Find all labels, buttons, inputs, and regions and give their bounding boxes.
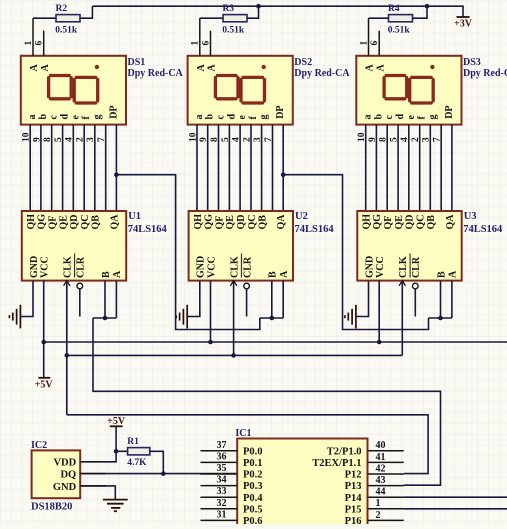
DS1 decimal point: [95, 65, 99, 69]
wire U1 CLR stub: [79, 288, 81, 316]
IC2 pin DQ stub: [80, 473, 105, 475]
svg-text:R4: R4: [388, 4, 400, 14]
DS1 7-seg digit right loop: [74, 77, 98, 103]
svg-text:A: A: [207, 64, 218, 72]
display DS1 body: [21, 56, 126, 125]
wire DS3 column 5: [408, 125, 410, 211]
svg-text:CLR: CLR: [242, 256, 253, 278]
svg-text:Dpy Red-CA: Dpy Red-CA: [128, 68, 184, 79]
junction U1 CLK on CLK bus: [65, 353, 70, 358]
svg-text:IC2: IC2: [31, 440, 47, 451]
svg-text:37: 37: [217, 440, 227, 451]
svg-text:QC: QC: [416, 215, 427, 230]
svg-text:B: B: [101, 271, 112, 278]
wire +3V top rail: [92, 5, 463, 7]
wire DS2 column 7: [261, 125, 263, 211]
svg-text:GND: GND: [364, 256, 375, 278]
IC1 pin 1 stub and wire to edge: [368, 508, 404, 510]
svg-text:44: 44: [376, 487, 386, 498]
svg-text:QB: QB: [91, 215, 102, 230]
svg-text:DP: DP: [108, 105, 119, 118]
wire U2 A pin down: [282, 281, 284, 318]
wire IC2 DQ to IC1 P0.2: [80, 473, 237, 475]
svg-text:+5V: +5V: [35, 380, 54, 391]
IC1 pin 35 stub: [201, 473, 238, 475]
wire DS3 column 1: [365, 125, 367, 211]
ground symbol U3: [345, 305, 356, 329]
wire DS3 column 3: [386, 125, 388, 211]
svg-text:QA: QA: [109, 214, 120, 230]
wire CLK bus: [67, 354, 403, 356]
earth ground symbol IC2: [103, 500, 128, 512]
IC1 pin 37 stub: [201, 450, 238, 452]
svg-text:IC1: IC1: [235, 428, 251, 439]
wire U3 B pin down: [440, 281, 442, 318]
U1 CLK clock arrow: [64, 281, 70, 286]
shift register U2 body: [189, 211, 293, 281]
wire U1 B pin down: [104, 281, 106, 318]
svg-text:VCC: VCC: [375, 256, 386, 278]
wire DS1 column 7: [94, 125, 96, 211]
svg-text:DP: DP: [275, 105, 286, 118]
junction U2 VCC on +5V bus: [208, 340, 213, 345]
wire R4 left to DS3 pin1: [369, 17, 389, 19]
svg-text:B: B: [268, 271, 279, 278]
wire DS2 column 5: [239, 125, 241, 211]
IC2 pin VDD stub: [80, 461, 105, 463]
junction R3 on +3V rail: [256, 4, 261, 9]
svg-text:DQ: DQ: [60, 470, 76, 481]
svg-text:A: A: [365, 64, 376, 72]
svg-text:DS3: DS3: [463, 57, 481, 68]
wire U2 CLR stub: [246, 288, 248, 316]
svg-text:g: g: [92, 115, 103, 120]
svg-text:P15: P15: [345, 504, 362, 515]
ground symbol U1: [9, 305, 20, 329]
svg-text:R3: R3: [223, 4, 235, 14]
DS2 pin 6: [210, 31, 212, 56]
svg-text:CLK: CLK: [229, 256, 240, 278]
DS3 7-seg digit right loop: [410, 77, 434, 103]
svg-text:CLR: CLR: [411, 256, 422, 278]
junction U3 B/A tie: [438, 316, 443, 321]
U3 CLK clock arrow: [399, 281, 405, 286]
DS2 7-seg digit right loop: [241, 77, 265, 103]
wire R2 right riser: [80, 6, 92, 18]
svg-text:Dpy Red-CA: Dpy Red-CA: [463, 68, 507, 79]
svg-text:P0.0: P0.0: [243, 446, 263, 457]
svg-text:33: 33: [217, 486, 227, 497]
svg-text:0.51k: 0.51k: [222, 26, 245, 36]
svg-text:P0.1: P0.1: [243, 458, 263, 469]
wire U2 VCC down to +5V bus: [210, 281, 212, 342]
wire U1 VCC down to +5V: [43, 281, 45, 378]
DS3 pin 1: [368, 18, 370, 56]
sensor IC2 body: [32, 450, 81, 498]
svg-text:P0.5: P0.5: [243, 504, 263, 515]
svg-text:QH: QH: [193, 214, 204, 230]
wire serial data U1 input from MCU P1.3: [93, 318, 441, 485]
svg-text:+3V: +3V: [454, 18, 473, 29]
svg-text:43: 43: [376, 475, 386, 486]
wire R4 right riser: [413, 6, 428, 18]
svg-text:+5V: +5V: [107, 416, 126, 427]
svg-text:DP: DP: [444, 105, 455, 118]
wire DS2 column 3: [218, 125, 220, 211]
svg-text:6: 6: [35, 41, 45, 46]
wire DS3 column 9: [451, 125, 453, 211]
junction U1 B/A tie: [103, 316, 108, 321]
U1 CLR bubble: [77, 283, 83, 289]
junction U3 VCC on +5V bus: [377, 340, 382, 345]
wire R3 right riser: [247, 6, 259, 18]
junction U2 B/A tie: [270, 316, 275, 321]
wire DS1 column 3: [51, 125, 53, 211]
wire IC2 GND down: [80, 486, 115, 500]
resistor R4: [389, 15, 413, 22]
IC2 pin GND stub: [80, 485, 105, 487]
power +5V (left): [35, 378, 54, 391]
wire DS1 column 1: [29, 125, 31, 211]
svg-text:B: B: [436, 271, 447, 278]
svg-text:T2/P1.0: T2/P1.0: [327, 446, 362, 457]
svg-text:QE: QE: [225, 215, 236, 230]
svg-text:e: e: [237, 115, 248, 120]
shift register U1 body: [22, 211, 126, 281]
svg-text:d: d: [226, 114, 237, 120]
wire DS2 column 9: [282, 125, 284, 211]
svg-text:1: 1: [191, 41, 201, 46]
svg-text:A: A: [448, 270, 459, 278]
svg-text:QB: QB: [426, 215, 437, 230]
power +5V (above R1): [107, 416, 126, 427]
junction R4 on +3V rail: [425, 4, 430, 9]
wire DS2 column 2: [207, 125, 209, 211]
svg-text:QG: QG: [204, 214, 215, 230]
svg-text:CLK: CLK: [63, 256, 74, 278]
svg-text:35: 35: [217, 463, 227, 474]
IC1 pin 2 stub: [368, 519, 404, 521]
svg-text:c: c: [384, 115, 395, 120]
wire DS1 column 5: [72, 125, 74, 211]
IC1 pin 31 stub: [201, 519, 238, 521]
wire U1 serial input tie: [93, 317, 116, 319]
svg-text:CLK: CLK: [398, 256, 409, 278]
svg-text:42: 42: [376, 463, 386, 474]
svg-text:U2: U2: [295, 211, 308, 222]
junction U1 VCC on +5V bus: [41, 340, 46, 345]
svg-text:P0.2: P0.2: [243, 470, 263, 481]
svg-text:QC: QC: [80, 215, 91, 230]
svg-text:GND: GND: [29, 256, 40, 278]
svg-text:T2EX/P1.1: T2EX/P1.1: [312, 458, 361, 469]
wire U3 serial input tie: [429, 317, 452, 319]
svg-text:A: A: [29, 64, 40, 72]
svg-text:b: b: [373, 114, 384, 120]
svg-text:A: A: [112, 270, 123, 278]
svg-text:a: a: [363, 115, 374, 120]
resistor R2: [56, 15, 80, 22]
svg-text:0.51k: 0.51k: [55, 26, 78, 36]
IC1 pin 41 stub: [368, 461, 404, 463]
svg-text:c: c: [49, 115, 60, 120]
svg-text:QA: QA: [445, 214, 456, 230]
svg-text:QB: QB: [257, 215, 268, 230]
svg-text:CLR: CLR: [76, 256, 87, 278]
svg-text:g: g: [427, 115, 438, 120]
svg-text:P14: P14: [345, 493, 363, 504]
svg-text:a: a: [27, 115, 38, 120]
junction U2 QA cascade tap: [281, 172, 286, 177]
svg-text:1: 1: [376, 498, 381, 509]
wire DS3 column 8: [440, 125, 442, 211]
DS2 pin 1: [199, 18, 201, 56]
svg-text:A: A: [375, 64, 386, 72]
svg-text:0.51k: 0.51k: [388, 26, 411, 36]
wire U1 CLK down (continues to MCU row): [66, 281, 68, 415]
svg-text:31: 31: [217, 509, 227, 520]
svg-text:U1: U1: [128, 211, 141, 222]
svg-text:g: g: [259, 115, 270, 120]
svg-text:1: 1: [359, 41, 369, 46]
wire U1 GND pin down: [20, 281, 33, 317]
svg-text:QD: QD: [69, 215, 80, 230]
U2 CLR bubble: [244, 283, 250, 289]
svg-text:2: 2: [376, 510, 381, 521]
junction R1 on DQ line: [161, 471, 166, 476]
DS3 7-seg digit left loop: [384, 76, 407, 99]
resistor R3: [223, 15, 247, 22]
wire U3 CLR stub: [414, 288, 416, 316]
svg-text:e: e: [70, 115, 81, 120]
svg-text:QA: QA: [276, 214, 287, 230]
wire +5V bus: [44, 341, 507, 343]
svg-text:A: A: [196, 64, 207, 72]
svg-text:QE: QE: [58, 215, 69, 230]
junction U1 QA cascade tap: [114, 172, 119, 177]
wire DS2 column 1: [196, 125, 198, 211]
svg-text:QH: QH: [362, 214, 373, 230]
svg-text:QH: QH: [26, 214, 37, 230]
svg-text:A: A: [40, 64, 51, 72]
svg-text:R1: R1: [127, 437, 139, 447]
IC1 pin 42 stub (CLK): [368, 473, 404, 475]
IC1 pin 40 stub: [368, 450, 404, 452]
svg-text:R2: R2: [56, 4, 68, 14]
wire R3 left to DS2 pin1: [200, 17, 223, 19]
svg-text:VCC: VCC: [206, 256, 217, 278]
svg-text:A: A: [279, 270, 290, 278]
wire U1 A pin down: [115, 281, 117, 318]
wire DS2 column 8: [272, 125, 274, 211]
wire DS3 column 4: [397, 125, 399, 211]
wire U3 CLK down to CLK bus end: [401, 281, 403, 356]
wire DS1 column 8: [105, 125, 107, 211]
wire U2 serial input tie: [260, 317, 283, 319]
DS2 decimal point: [262, 65, 266, 69]
svg-text:a: a: [194, 115, 205, 120]
wire U1 QA to U2 input: [116, 175, 259, 330]
wire CLK net to MCU P1.2: [67, 415, 428, 474]
wire IC2 VDD to +5V: [80, 426, 116, 462]
MCU IC1 body: [237, 439, 367, 527]
DS2 7-seg digit left loop: [215, 76, 238, 99]
svg-text:6: 6: [201, 41, 211, 46]
wire DS1 column 2: [40, 125, 42, 211]
display DS3 body: [356, 56, 461, 125]
wire DS1 column 9: [115, 125, 117, 211]
svg-text:34: 34: [217, 475, 227, 486]
wire U3 A pin down: [451, 281, 453, 318]
svg-text:d: d: [60, 114, 71, 120]
svg-text:c: c: [216, 115, 227, 120]
DS1 pin 6: [43, 31, 45, 56]
svg-text:QG: QG: [372, 214, 383, 230]
svg-text:1: 1: [24, 41, 34, 46]
wire U2 GND pin down: [187, 281, 200, 317]
svg-text:QG: QG: [37, 214, 48, 230]
svg-text:P0.4: P0.4: [243, 493, 263, 504]
U3 CLR bubble: [413, 283, 419, 289]
wire DS1 column 4: [62, 125, 64, 211]
svg-text:6: 6: [370, 41, 380, 46]
IC1 pin 44 stub and wire to edge: [368, 496, 404, 498]
svg-text:P0.3: P0.3: [243, 481, 263, 492]
svg-text:DS18B20: DS18B20: [31, 502, 72, 513]
svg-text:b: b: [38, 114, 49, 120]
IC1 pin 43 stub (data): [368, 485, 404, 487]
wire DS2 column 6: [250, 125, 252, 211]
svg-text:U3: U3: [464, 211, 477, 222]
svg-text:74LS164: 74LS164: [463, 224, 503, 235]
svg-text:DS2: DS2: [294, 57, 312, 68]
IC1 pin 34 stub: [201, 485, 238, 487]
wire U2 CLK down to CLK bus: [233, 281, 235, 356]
svg-text:P0.6: P0.6: [243, 516, 263, 524]
svg-text:P13: P13: [345, 481, 362, 492]
svg-text:P16: P16: [345, 516, 362, 524]
svg-text:P12: P12: [345, 470, 362, 481]
svg-text:4.7K: 4.7K: [127, 458, 147, 468]
IC1 pin 32 stub: [201, 508, 238, 510]
DS1 pin 1: [32, 18, 34, 56]
svg-text:VCC: VCC: [40, 256, 51, 278]
wire DS3 column 7: [429, 125, 431, 211]
svg-text:VDD: VDD: [53, 457, 76, 468]
svg-text:QF: QF: [48, 216, 59, 230]
svg-text:32: 32: [217, 498, 227, 509]
DS3 decimal point: [430, 65, 434, 69]
wire DS2 column 4: [228, 125, 230, 211]
junction U2 CLK on CLK bus: [231, 353, 236, 358]
wire DS3 column 2: [375, 125, 377, 211]
svg-text:41: 41: [376, 452, 386, 463]
wire U3 GND pin down: [356, 281, 369, 317]
svg-text:74LS164: 74LS164: [295, 224, 335, 235]
ground symbol U2: [176, 305, 187, 329]
svg-text:Dpy Red-CA: Dpy Red-CA: [294, 68, 350, 79]
wire U2 QA to U3 input: [283, 175, 428, 330]
svg-text:d: d: [395, 114, 406, 120]
svg-text:40: 40: [376, 440, 386, 451]
svg-text:e: e: [406, 115, 417, 120]
wire R1 left: [116, 450, 128, 452]
svg-text:QC: QC: [247, 215, 258, 230]
wire DS1 column 6: [83, 125, 85, 211]
IC1 pin 33 stub: [201, 496, 238, 498]
wire DS3 column 6: [419, 125, 421, 211]
svg-text:DS1: DS1: [128, 57, 146, 68]
svg-text:GND: GND: [196, 256, 207, 278]
IC1 pin 36 stub: [201, 461, 238, 463]
wire U2 B pin down: [271, 281, 273, 318]
svg-text:QD: QD: [236, 215, 247, 230]
wire +3V drop: [462, 5, 464, 17]
svg-text:QD: QD: [405, 215, 416, 230]
svg-text:QE: QE: [394, 215, 405, 230]
svg-text:b: b: [205, 114, 216, 120]
svg-text:74LS164: 74LS164: [128, 224, 168, 235]
wire R2 left to DS1 pin1: [33, 17, 56, 19]
display DS2 body: [188, 56, 293, 125]
svg-text:QF: QF: [383, 216, 394, 230]
svg-text:36: 36: [217, 451, 227, 462]
U2 CLK clock arrow: [230, 281, 236, 286]
shift register U3 body: [357, 211, 461, 281]
power +3V: [454, 17, 473, 29]
junction R1 tap on +5V drop: [114, 449, 119, 454]
resistor R1: [128, 448, 150, 455]
svg-text:QF: QF: [214, 216, 225, 230]
wire R1 right to DQ line: [150, 451, 164, 473]
DS3 pin 6: [378, 31, 380, 56]
wire U3 VCC down to +5V bus: [378, 281, 380, 342]
DS1 7-seg digit left loop: [49, 76, 72, 99]
svg-text:GND: GND: [53, 482, 77, 493]
